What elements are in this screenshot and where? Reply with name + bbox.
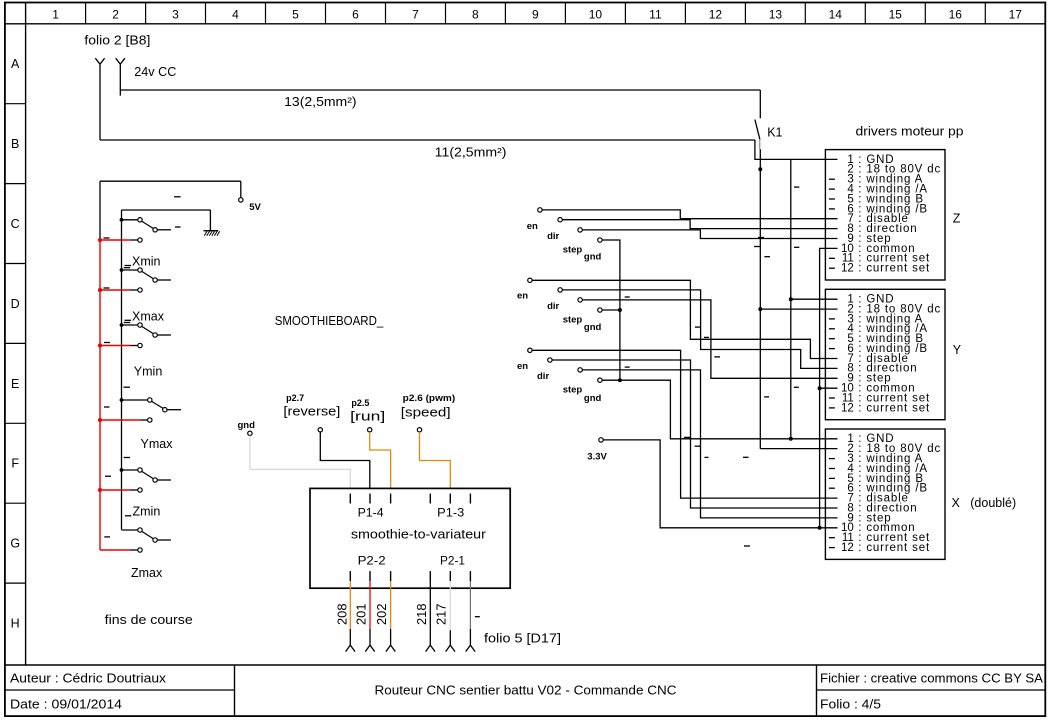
dash left of red junction 4: [104, 406, 110, 408]
wire switch bus to ground: [122, 209, 211, 211]
dash left of step X rail: [695, 445, 701, 447]
underscore marks Xmin: [125, 265, 132, 267]
svg-text:Ymax: Ymax: [141, 437, 174, 451]
svg-text:24v CC: 24v CC: [134, 65, 176, 79]
pin dash 5 driver Z: [829, 198, 835, 200]
folio arrow 208: [346, 645, 355, 652]
wire 11 down to driver Z pin 1: [755, 140, 838, 159]
red stub 3: [98, 343, 102, 347]
junction dot gnd rail / gnd Y: [618, 308, 622, 312]
title block row line right: [817, 689, 1046, 691]
terminal step Y: [578, 298, 582, 302]
svg-text:Fichier : creative commons CC: Fichier : creative commons CC BY SA: [820, 671, 1043, 686]
svg-text:Y: Y: [953, 343, 962, 357]
wire 218: [429, 581, 431, 645]
terminal p2.6 speed: [417, 428, 421, 432]
connector ticks P2 bottom: [349, 571, 351, 581]
wire en Y to driver Y pin 7: [532, 280, 837, 358]
gray wire gnd to P1-4: [250, 436, 350, 489]
svg-text:C: C: [11, 217, 20, 231]
terminal p2.7 reverse: [318, 428, 322, 432]
folio arrow 217: [446, 645, 455, 652]
svg-text:8: 8: [472, 8, 479, 22]
pin dash 6 driver X: [829, 487, 835, 489]
5V wire vertical: [99, 181, 101, 240]
terminal en X: [528, 348, 532, 352]
pin dash 6 driver Y: [829, 348, 835, 350]
terminal gnd smoothie: [248, 431, 252, 435]
title block row line left: [5, 689, 235, 691]
svg-text:Folio : 4/5: Folio : 4/5: [820, 697, 881, 712]
folio arrow 202: [386, 645, 395, 652]
terminal gnd Y: [598, 308, 602, 312]
svg-text:en: en: [527, 221, 538, 232]
5V terminal circle: [239, 198, 243, 202]
junction dot gnd rail / gnd X: [618, 378, 622, 382]
svg-text:folio 5 [D17]: folio 5 [D17]: [484, 632, 561, 646]
svg-text:p2.7: p2.7: [286, 393, 304, 403]
wire 13 vertical from arrow: [119, 64, 121, 96]
wire 6 black segment: [469, 629, 471, 645]
junction dot 24V rail / driver Z pin 2: [758, 167, 762, 171]
wire 3.3V to driver X pin 10: [603, 440, 837, 528]
wire step Y to driver Y pin 9: [582, 300, 837, 378]
wire en X to driver X pin 7: [532, 350, 837, 498]
pin dash 4 driver Y: [829, 328, 835, 330]
folio arrow to wire 13: [116, 58, 125, 64]
wire 6 gray segment: [469, 581, 471, 629]
common rail driver Z pin 10 down: [820, 248, 838, 527]
wire step Z to driver Z pin 9: [582, 230, 837, 239]
wire 208 black segment: [349, 629, 351, 645]
wire en Z to driver Z pin 7: [542, 210, 837, 219]
pin dash 11 driver Z: [829, 257, 835, 259]
svg-text:Xmax: Xmax: [132, 309, 165, 323]
driver box Y: [825, 289, 945, 419]
dash near wire 6: [475, 616, 480, 618]
folio arrow 218: [426, 645, 435, 652]
gnd rail continues: [619, 310, 621, 380]
svg-text:202: 202: [374, 604, 389, 626]
terminal step X: [578, 368, 582, 372]
dash near GND rail row C b: [794, 246, 799, 248]
svg-text:fins de course: fins de course: [105, 612, 193, 627]
svg-text:13: 13: [769, 8, 783, 22]
svg-text:A: A: [11, 57, 20, 71]
svg-text:dir: dir: [547, 301, 559, 312]
folio arrow wire 6: [466, 645, 475, 652]
wire 201 black segment: [369, 629, 371, 645]
svg-text:P1-4: P1-4: [358, 506, 384, 520]
wire gnd X joins rail: [602, 379, 620, 381]
wire 11 horizontal run: [100, 139, 755, 141]
wire reverse to P1-4: [320, 432, 370, 488]
svg-text:dir: dir: [537, 371, 549, 382]
svg-text:14: 14: [829, 8, 843, 22]
red stub 4: [98, 418, 102, 422]
driver box Z: [825, 150, 945, 280]
svg-text:9: 9: [532, 8, 539, 22]
svg-text:11(2,5mm²): 11(2,5mm²): [435, 145, 507, 159]
svg-text:Xmin: Xmin: [132, 255, 161, 269]
svg-text:15: 15: [889, 8, 903, 22]
svg-text:folio 2 [B8]: folio 2 [B8]: [84, 34, 150, 48]
terminal gnd Z: [598, 238, 602, 242]
svg-text:Zmin: Zmin: [133, 504, 161, 518]
pin dash 4 driver Z: [829, 188, 835, 190]
dash below Ymax label: [124, 457, 130, 459]
row dividers: [5, 103, 26, 105]
gnd net to driver X pin 1: [620, 380, 838, 439]
dash en Y route 2: [704, 336, 709, 338]
red 5V bus vertical: [99, 240, 101, 550]
dash right of step X rail: [705, 456, 709, 458]
svg-text:12: 12: [841, 542, 854, 554]
svg-text:Auteur : Cédric Doutriaux: Auteur : Cédric Doutriaux: [10, 671, 167, 686]
wire 217 black segment: [449, 630, 451, 645]
wire from 13 down to K1: [759, 90, 761, 118]
pin dash 12 driver X: [829, 547, 835, 549]
svg-text:Date : 09/01/2014: Date : 09/01/2014: [10, 697, 122, 712]
wire 24V rail to driver Y pin 2: [760, 308, 837, 310]
svg-text:smoothie-to-variateur: smoothie-to-variateur: [351, 527, 486, 541]
svg-text:: current set: : current set: [854, 542, 930, 554]
underscore marks Xmax: [125, 319, 132, 321]
svg-text:p2.5: p2.5: [351, 398, 369, 408]
svg-text:217: 217: [434, 604, 449, 626]
svg-text:step: step: [563, 244, 583, 255]
svg-text:gnd: gnd: [238, 420, 256, 431]
svg-text:P2-2: P2-2: [358, 553, 386, 567]
pin dash 11 driver X: [829, 537, 835, 539]
svg-text:2: 2: [112, 8, 119, 22]
terminal en Y: [528, 278, 532, 282]
wire common rail to driver Y pin 10: [820, 387, 838, 389]
limit switch Zmin: [122, 529, 138, 531]
svg-text:[speed]: [speed]: [401, 406, 451, 420]
svg-text:step: step: [563, 385, 583, 396]
svg-text:5: 5: [292, 8, 299, 22]
wire 208 orange segment: [349, 581, 351, 629]
orange wire run to P1-4: [370, 432, 391, 488]
svg-text:Z: Z: [953, 212, 961, 226]
GND rail to lower drivers: [790, 159, 792, 438]
pin dash 4 driver X: [829, 468, 835, 470]
svg-text:10: 10: [589, 8, 603, 22]
K1 blade gray segment: [759, 139, 761, 149]
svg-text:6: 6: [352, 8, 359, 22]
svg-text:: current set: : current set: [854, 263, 930, 275]
wire dir Z to driver Z pin 8: [562, 220, 837, 229]
svg-text:Routeur CNC sentier battu V02: Routeur CNC sentier battu V02 - Commande…: [375, 683, 677, 698]
svg-text:gnd: gnd: [584, 393, 602, 404]
svg-text:E: E: [11, 377, 19, 391]
wire 11 vertical from arrow: [99, 64, 101, 140]
limit switch Ymax: [120, 468, 124, 472]
dash en Y route 1: [695, 326, 700, 328]
folio arrow to wire 11: [95, 58, 104, 64]
pin dash 6 driver Z: [829, 208, 835, 210]
folio arrow 201: [365, 645, 374, 652]
dash left of red bus bottom: [104, 536, 110, 538]
junction dot common rail / X pin 10: [818, 526, 822, 530]
svg-text:1: 1: [52, 8, 59, 22]
wire gnd Z to gnd rail: [602, 240, 620, 310]
junction dot GND rail / Y pin 1: [789, 297, 793, 301]
svg-text:7: 7: [412, 8, 419, 22]
dash near gnd rail row E: [625, 366, 630, 368]
limit switch Xmax: [120, 323, 124, 327]
column dividers: [85, 3, 87, 24]
svg-text:218: 218: [414, 604, 429, 626]
wire 201 red segment: [369, 581, 371, 629]
ground symbol: [204, 230, 219, 232]
svg-text:3.3V: 3.3V: [587, 452, 607, 463]
svg-text:12: 12: [841, 263, 854, 275]
wire step X to driver X pin 9: [582, 370, 837, 518]
svg-text:K1: K1: [767, 126, 782, 140]
wire 202 black segment: [390, 629, 392, 645]
red stub 6 bottom: [100, 549, 131, 551]
underscore mark Zmin: [125, 515, 131, 517]
svg-text:p2.6 (pwm): p2.6 (pwm): [403, 393, 456, 403]
red stub 5: [98, 488, 102, 492]
dash near 24V rail row E: [764, 396, 769, 398]
dash below Ymin label: [124, 386, 131, 388]
terminal en Z: [538, 208, 542, 212]
svg-text:dir: dir: [547, 231, 559, 242]
svg-text:Zmax: Zmax: [131, 566, 163, 580]
svg-text:P1-3: P1-3: [437, 506, 464, 520]
dash near GND rail row E: [794, 386, 799, 388]
svg-text:gnd: gnd: [584, 322, 602, 333]
wire 202 orange segment: [390, 581, 392, 629]
dash row F near drivers: [743, 456, 749, 458]
svg-text:12: 12: [841, 402, 854, 414]
relay contact K1 blade: [755, 120, 760, 140]
svg-text:16: 16: [949, 8, 963, 22]
limit switch Xmin: [120, 268, 124, 272]
pin dash 11 driver Y: [829, 397, 835, 399]
pin dash 3 driver Y: [829, 318, 835, 320]
limit switch SW1 (5V): [120, 218, 124, 222]
terminal gnd X: [598, 378, 602, 382]
title block divider right: [816, 665, 818, 716]
junction dot common rail / Y pin 10: [818, 386, 822, 390]
terminal step Z: [578, 228, 582, 232]
svg-text:F: F: [11, 457, 19, 471]
pin dash 3 driver X: [829, 458, 835, 460]
dash above X pin1 wire: [684, 436, 691, 438]
red stub 1: [98, 238, 102, 242]
dash left of red junction 5: [105, 475, 111, 477]
svg-text:H: H: [11, 616, 20, 630]
row letter column line: [25, 3, 27, 666]
svg-text:3: 3: [172, 8, 179, 22]
wire dir Y to driver Y pin 8: [562, 290, 837, 369]
box smoothie-to-variateur: [310, 488, 510, 588]
pin dash 3 driver Z: [829, 178, 835, 180]
dash right of SW1 contact: [175, 226, 181, 228]
dash near 24V rail row C: [758, 237, 764, 239]
terminal p2.5 run: [368, 428, 372, 432]
wire GND rail to driver Y pin 1: [791, 298, 838, 300]
dash step Y route: [714, 356, 720, 358]
limit switch Ymin: [120, 398, 124, 402]
svg-text:13(2,5mm²): 13(2,5mm²): [284, 95, 357, 109]
svg-text:208: 208: [334, 604, 349, 626]
red stub 2: [98, 288, 102, 292]
svg-text:201: 201: [354, 604, 369, 626]
junction dot 24V rail / driver Y pin 2: [758, 307, 762, 311]
svg-text:drivers moteur pp: drivers moteur pp: [856, 125, 964, 139]
svg-text:12: 12: [709, 8, 723, 22]
dash near 24V rail row C b: [754, 246, 760, 248]
column header row line: [5, 23, 1045, 25]
svg-text:[reverse]: [reverse]: [283, 405, 340, 419]
wire 13 horizontal run: [120, 89, 760, 91]
svg-text:step: step: [563, 314, 583, 325]
dash left of red junction 2: [104, 287, 110, 289]
junction dot GND rail / X pin 1: [789, 437, 793, 441]
pin dash 12 driver Z: [829, 267, 835, 269]
24V rail from K1 down to drivers: [759, 149, 761, 448]
svg-text:en: en: [517, 291, 528, 302]
svg-text:5V: 5V: [249, 202, 261, 213]
svg-text:4: 4: [232, 8, 239, 22]
wire 217 gray segment: [449, 581, 451, 630]
svg-text:Ymin: Ymin: [134, 365, 163, 379]
terminal 3.3V: [599, 438, 603, 442]
terminal dir Y: [558, 288, 562, 292]
svg-text:gnd: gnd: [584, 252, 602, 263]
terminal dir X: [548, 358, 552, 362]
svg-text:X (doublé): X (doublé): [952, 496, 1017, 510]
dash near 24V rail row D: [764, 256, 770, 258]
dash row G near drivers: [744, 545, 750, 547]
svg-text:P2-1: P2-1: [440, 553, 465, 567]
terminal dir Z: [558, 218, 562, 222]
limit switch bus vertical: [121, 210, 123, 530]
pin dash 12 driver Y: [829, 407, 835, 409]
svg-text:en: en: [517, 361, 528, 372]
title block divider left: [234, 665, 236, 716]
svg-text:B: B: [11, 137, 19, 151]
5V wire horizontal: [100, 180, 241, 182]
title block top line: [5, 664, 1045, 666]
wire gnd Y joins rail: [602, 309, 620, 311]
svg-text:G: G: [10, 537, 20, 551]
wire dir X to driver X pin 8: [552, 360, 837, 508]
dash near 5V wire: [174, 196, 181, 198]
svg-text:SMOOTHIEBOARD_: SMOOTHIEBOARD_: [275, 313, 384, 328]
dash near gnd rail row C: [625, 296, 630, 298]
dash near GND rail row C: [794, 186, 799, 188]
pin dash 5 driver X: [829, 477, 835, 479]
dash left of red junction 1: [104, 237, 110, 239]
svg-text:17: 17: [1009, 8, 1023, 22]
connector ticks P1 top: [349, 494, 351, 504]
svg-text:D: D: [11, 297, 20, 311]
driver box X: [825, 429, 945, 559]
dash left of red junction 3: [104, 342, 110, 344]
svg-text:11: 11: [649, 8, 662, 22]
pin dash 5 driver Y: [829, 338, 835, 340]
orange wire speed to P1-3: [420, 432, 451, 488]
svg-text:[run]: [run]: [350, 410, 385, 424]
svg-text:: current set: : current set: [854, 402, 930, 414]
wire 24V rail to driver X pin 2: [760, 448, 837, 450]
